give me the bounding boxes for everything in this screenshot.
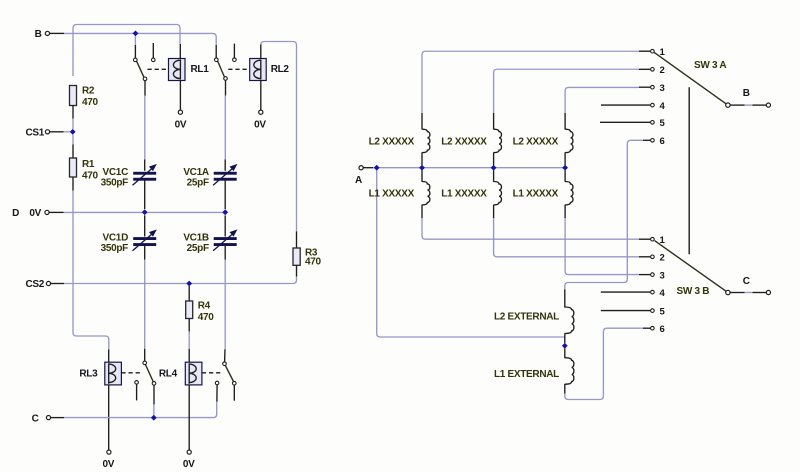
svg-text:B: B — [743, 88, 750, 99]
wire RL1 pivot to VC1C — [144, 81, 146, 171]
inductor L2 col3 — [513, 113, 573, 165]
svg-text:25pF: 25pF — [187, 243, 209, 254]
capacitor VC1B — [183, 230, 236, 254]
terminal CS2 — [25, 279, 64, 290]
switch SW3A contact 2 — [639, 65, 665, 76]
svg-text:4: 4 — [660, 101, 666, 112]
pin RL3 coil top — [108, 350, 110, 363]
node junction D VC1A — [222, 209, 228, 215]
svg-text:L2 XXXXX: L2 XXXXX — [441, 137, 487, 148]
wire VC1D bottom to RL3 contact — [144, 246, 146, 361]
pin RL1 coil top — [179, 44, 181, 59]
wire RL3 dashed link — [121, 372, 142, 374]
capacitor VC1C — [101, 165, 157, 189]
svg-text:VC1D: VC1D — [103, 232, 129, 243]
pin R2 bottom — [72, 106, 74, 119]
svg-text:B: B — [35, 29, 42, 40]
switch SW3A contact 1 — [639, 47, 666, 58]
wire col1 top to SW3A contact 1 — [422, 51, 639, 113]
svg-text:SW 3 A: SW 3 A — [694, 60, 726, 71]
wire R2 to CS1 junction — [72, 119, 74, 130]
wire RL3 pivot to C row — [153, 385, 155, 417]
node junction col3 A row — [562, 165, 568, 171]
svg-text:6: 6 — [660, 324, 665, 335]
node junction CS1 — [70, 129, 76, 135]
wire CS1 to R1 — [72, 135, 74, 146]
terminal 0V RL2 — [254, 110, 266, 131]
wire RL2 coil top to R3 top — [261, 42, 297, 232]
wire R4 bottom to RL4 coil — [188, 319, 190, 363]
svg-text:R2: R2 — [82, 85, 95, 96]
switch SW3B contact 4 — [601, 288, 666, 299]
pin R1 top — [72, 145, 74, 159]
pin RL2 switch common — [215, 45, 217, 58]
inductor L1 col3 — [513, 170, 573, 218]
svg-text:RL4: RL4 — [159, 368, 178, 379]
wire RL2 pivot to VC1A — [224, 80, 226, 171]
switch SW3A contact 3 — [639, 83, 665, 94]
node junction col2 A row — [491, 165, 497, 171]
pin VC1C bottom — [144, 180, 146, 209]
switch SW3B blade — [655, 241, 727, 292]
wire net B row — [64, 33, 216, 45]
switch SW3A contact 6 — [643, 136, 665, 147]
resistor R4 — [186, 286, 215, 323]
svg-text:L2 XXXXX: L2 XXXXX — [513, 137, 559, 148]
inductor L2 EXTERNAL — [494, 290, 574, 344]
svg-text:R4: R4 — [198, 300, 211, 311]
wire SW3A contact 6 to L2 EXTERNAL top — [565, 140, 643, 290]
inductor L2 col1 — [369, 113, 430, 165]
pin RL4 coil bottom — [188, 385, 190, 450]
svg-text:6: 6 — [660, 136, 665, 147]
terminal C right — [743, 276, 771, 294]
pin R1 bottom — [72, 177, 74, 191]
switch RL3 contacts — [135, 361, 156, 400]
node junction L2-L1 EXTERNAL — [562, 343, 568, 349]
node junction B — [133, 31, 139, 37]
pin RL1 switch common — [134, 45, 136, 58]
svg-text:25pF: 25pF — [187, 177, 209, 188]
terminal 0V RL1 — [175, 110, 187, 131]
relay RL3 — [79, 362, 121, 385]
wire D row — [64, 211, 226, 213]
svg-text:0V: 0V — [102, 459, 114, 470]
switch SW3A pivot — [726, 103, 730, 107]
relay RL1 — [169, 59, 210, 81]
svg-text:L1 XXXXX: L1 XXXXX — [441, 189, 487, 200]
wire CS2 row — [64, 277, 297, 284]
wire C row — [64, 402, 217, 418]
switch SW3A contact 5 — [600, 118, 666, 129]
svg-text:3: 3 — [660, 83, 665, 94]
svg-text:CS1: CS1 — [25, 127, 44, 138]
svg-text:470: 470 — [198, 312, 215, 323]
svg-text:0V: 0V — [175, 120, 187, 131]
svg-text:RL3: RL3 — [79, 368, 98, 379]
svg-text:L1 XXXXX: L1 XXXXX — [369, 189, 415, 200]
switch SW3B pivot — [726, 290, 730, 294]
wire col2 bottom to SW3B contact 2 — [494, 218, 639, 257]
pin VC1A bottom — [224, 180, 226, 209]
relay RL2 — [250, 59, 290, 81]
wire RL4 dashed link — [202, 372, 222, 374]
svg-text:470: 470 — [305, 257, 322, 268]
node junction col1 A row — [419, 165, 425, 171]
switch SW3B contact 2 — [639, 253, 665, 264]
wire R1 bottom to RL3 coil — [73, 191, 109, 351]
svg-text:L1 XXXXX: L1 XXXXX — [513, 189, 559, 200]
relay RL4 — [159, 362, 202, 385]
node junction CS2 R4 — [186, 281, 192, 287]
terminal A — [355, 166, 373, 186]
node junction C row — [151, 415, 157, 421]
svg-text:VC1C: VC1C — [103, 167, 129, 178]
resistor R1 — [70, 158, 99, 181]
switch SW3B contact 3 — [639, 270, 665, 281]
pin VC1D top — [144, 215, 146, 236]
switch RL4 contacts — [215, 362, 236, 401]
wire SW3B pivot to terminal C — [730, 292, 766, 294]
svg-text:0V: 0V — [254, 120, 266, 131]
switch SW3A blade — [654, 52, 726, 104]
wire col1 bottom to SW3B contact 1 — [422, 218, 639, 239]
wire RL1 dashed link — [148, 68, 169, 70]
switch RL1 contacts — [134, 43, 156, 81]
svg-text:2: 2 — [660, 65, 665, 76]
svg-text:C: C — [32, 413, 39, 424]
terminal B — [35, 29, 64, 40]
resistor R2 — [70, 85, 99, 108]
svg-text:SW 3 B: SW 3 B — [677, 286, 710, 297]
wire RL2 dashed link — [228, 68, 249, 70]
wire R2 top to RL1 coil — [73, 25, 180, 77]
svg-text:L1 EXTERNAL: L1 EXTERNAL — [494, 369, 559, 380]
svg-text:C: C — [743, 276, 750, 287]
svg-text:2: 2 — [660, 253, 665, 264]
svg-text:VC1A: VC1A — [183, 167, 209, 178]
node junction A — [374, 165, 380, 171]
svg-text:L2 EXTERNAL: L2 EXTERNAL — [494, 312, 559, 323]
svg-text:R1: R1 — [82, 159, 95, 170]
pin RL2 coil top — [260, 45, 262, 59]
svg-text:3: 3 — [660, 270, 665, 281]
switch SW3B contact 5 — [601, 306, 666, 317]
pin RL2 coil bottom — [260, 81, 262, 111]
terminal D 0V — [12, 208, 63, 219]
wire col3 top to SW3A contact 3 — [565, 87, 639, 113]
svg-text:350pF: 350pF — [101, 243, 129, 254]
wire col2 top to SW3A contact 2 — [494, 69, 639, 113]
resistor R3 — [293, 231, 322, 276]
switch RL2 contacts — [215, 44, 237, 81]
switch SW3A contact 4 — [601, 101, 666, 112]
svg-text:0V: 0V — [29, 208, 41, 219]
wire A branch to L2 EXTERNAL — [377, 168, 565, 337]
svg-text:A: A — [355, 175, 362, 186]
svg-text:CS2: CS2 — [25, 279, 44, 290]
switch SW3B contact 1 — [639, 235, 666, 246]
terminal 0V RL3 — [102, 450, 114, 470]
wire SW3B contact 6 to L1 EXTERNAL bottom — [565, 328, 643, 399]
node junction D VC1C — [142, 209, 148, 215]
terminal B right — [743, 88, 771, 107]
svg-text:L2 XXXXX: L2 XXXXX — [369, 137, 415, 148]
svg-text:RL1: RL1 — [191, 64, 210, 75]
svg-text:5: 5 — [660, 306, 666, 317]
svg-text:470: 470 — [82, 97, 99, 108]
wire A row — [373, 167, 565, 169]
wire gang link SW3A-SW3B — [688, 87, 690, 254]
svg-text:470: 470 — [82, 170, 99, 181]
wire VC1B bottom to RL4 contact — [224, 246, 227, 362]
wire SW3A pivot to terminal B — [730, 104, 766, 106]
wire branch B to RL1 switch — [134, 33, 136, 45]
terminal C — [32, 413, 64, 424]
svg-text:0V: 0V — [183, 459, 195, 470]
inductor L2 col2 — [441, 113, 501, 165]
svg-text:RL2: RL2 — [271, 64, 290, 75]
capacitor VC1A — [183, 165, 236, 189]
pin RL3 coil bottom — [108, 385, 110, 450]
svg-text:5: 5 — [660, 118, 666, 129]
capacitor VC1D — [101, 230, 157, 254]
svg-text:D: D — [12, 208, 19, 219]
inductor L1 EXTERNAL — [494, 348, 574, 393]
svg-text:350pF: 350pF — [101, 177, 129, 188]
wire col3 bottom to SW3B contact 3 — [565, 218, 639, 274]
pin RL1 coil bottom — [179, 81, 181, 111]
pin VC1B top — [224, 215, 226, 236]
inductor L1 col1 — [369, 170, 430, 218]
terminal CS1 — [25, 127, 70, 138]
switch SW3B contact 6 — [643, 324, 665, 335]
svg-text:4: 4 — [660, 288, 666, 299]
pin RL4 aux contact — [216, 385, 218, 402]
svg-text:VC1B: VC1B — [183, 232, 209, 243]
terminal 0V RL4 — [183, 450, 195, 470]
inductor L1 col2 — [441, 170, 501, 218]
